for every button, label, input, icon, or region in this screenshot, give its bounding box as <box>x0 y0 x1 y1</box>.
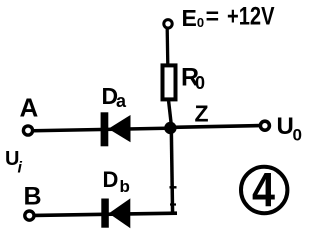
figure number circle <box>241 167 287 213</box>
terminal E0 (supply terminal circle) <box>164 20 172 28</box>
terminal U0 (output circle) <box>260 121 269 130</box>
resistor R0 <box>163 65 176 99</box>
diode Da triangle <box>108 115 130 142</box>
wire input B to vertical branch <box>35 213 177 215</box>
svg-text:b: b <box>120 177 130 196</box>
node Z junction dot <box>164 122 176 134</box>
wire supply terminal to resistor <box>166 29 170 66</box>
terminal B (input circle) <box>25 211 34 220</box>
wire node Z to output terminal <box>174 126 260 128</box>
svg-text:0: 0 <box>293 126 302 145</box>
tick nub on vertical wire <box>170 186 177 188</box>
svg-text:Z: Z <box>195 101 209 127</box>
svg-text:B: B <box>24 183 42 211</box>
svg-text:+12V: +12V <box>227 3 275 31</box>
wire input A to node Z <box>33 128 166 131</box>
wire resistor to node Z <box>169 101 172 124</box>
svg-text:0: 0 <box>195 73 205 93</box>
diode Db triangle <box>109 198 131 228</box>
svg-text:D: D <box>103 167 119 192</box>
diode Db cathode bar <box>101 199 109 228</box>
svg-text:4: 4 <box>252 165 275 218</box>
svg-text:i: i <box>18 160 23 177</box>
svg-text:A: A <box>20 93 39 123</box>
terminal A (input circle) <box>23 126 32 135</box>
wire node Z down to bottom branch corner <box>171 128 172 215</box>
svg-text:U: U <box>277 113 294 140</box>
svg-text:a: a <box>116 91 127 111</box>
diode Da cathode bar <box>101 112 109 146</box>
tick nub on vertical wire lower <box>170 203 176 205</box>
